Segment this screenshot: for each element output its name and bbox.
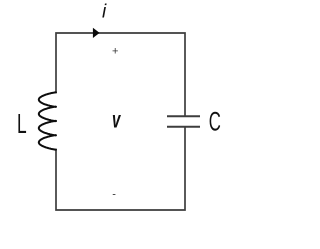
svg-text:-: - bbox=[112, 189, 116, 201]
svg-text:L: L bbox=[17, 108, 27, 139]
svg-text:C: C bbox=[209, 107, 221, 137]
svg-text:+: + bbox=[112, 46, 118, 58]
svg-text:v: v bbox=[112, 108, 121, 134]
